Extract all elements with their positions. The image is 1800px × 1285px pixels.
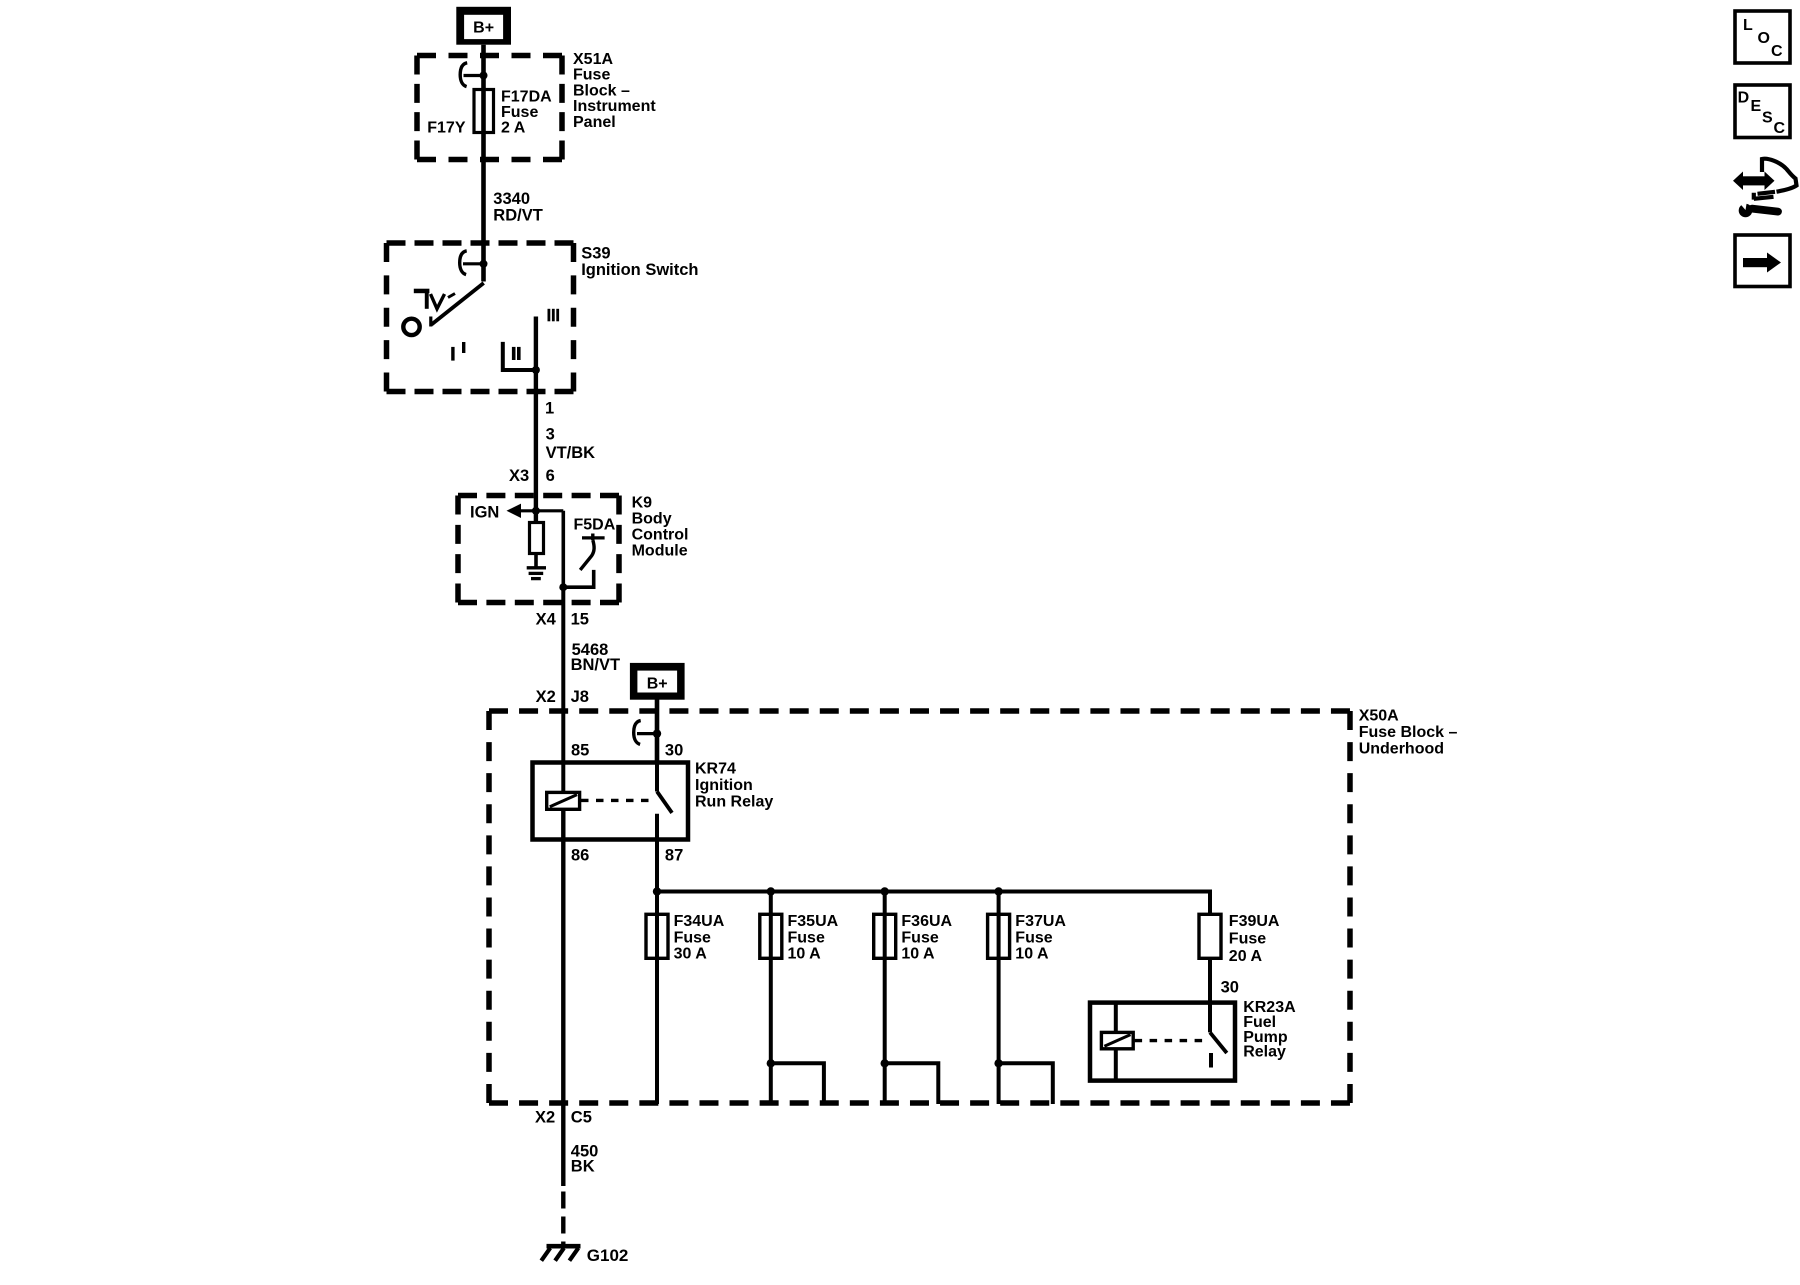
svg-text:G102: G102 <box>587 1246 629 1265</box>
relay KR23A coil terminal bottom <box>1114 1049 1118 1081</box>
wire switch output III down to BCM <box>534 317 538 523</box>
svg-text:C: C <box>1774 120 1786 137</box>
relay KR23A coil <box>1101 1032 1133 1048</box>
svg-text:6: 6 <box>546 467 555 485</box>
svg-text:Ignition Switch: Ignition Switch <box>581 261 698 279</box>
node junction F5DA output <box>559 583 567 591</box>
fuse F17DA 2A <box>474 89 552 137</box>
wire IGN branch down <box>561 511 565 589</box>
svg-text:Fuse: Fuse <box>674 929 711 946</box>
ignition switch S39 dashed box <box>387 243 574 392</box>
svg-text:BN/VT: BN/VT <box>571 656 621 674</box>
svg-text:Block –: Block – <box>573 82 630 99</box>
svg-text:K9: K9 <box>632 495 653 512</box>
svg-text:S: S <box>1762 110 1773 127</box>
mechanical link dashed <box>1135 1039 1206 1042</box>
svg-text:Fuse Block –: Fuse Block – <box>1359 724 1458 741</box>
connector X4 pin 15 <box>536 611 589 629</box>
svg-text:F17DA: F17DA <box>501 89 552 106</box>
svg-text:L: L <box>1743 17 1753 34</box>
label X51A Fuse Block - Instrument Panel <box>573 51 656 131</box>
wire F35 output bracket <box>771 1063 824 1104</box>
svg-text:F37UA: F37UA <box>1015 913 1066 930</box>
node junction 87 bus <box>653 887 661 895</box>
node junction at BCM input <box>532 507 540 515</box>
connector at switch <box>460 251 488 275</box>
svg-text:Fuse: Fuse <box>901 929 938 946</box>
wire F36 branch <box>883 892 887 1105</box>
svg-text:BK: BK <box>571 1157 595 1175</box>
svg-text:86: 86 <box>571 847 589 865</box>
label K9 Body Control Module <box>632 495 689 560</box>
wire dashed to ground <box>561 1192 565 1248</box>
svg-text:C5: C5 <box>571 1108 592 1126</box>
connector X3 pin 6 <box>509 467 555 485</box>
label KR23A Fuel Pump Relay <box>1243 999 1296 1061</box>
wire label 3 VT/BK <box>546 426 596 462</box>
svg-text:Run Relay: Run Relay <box>695 793 773 810</box>
svg-text:O: O <box>1758 30 1770 47</box>
svg-text:Fuse: Fuse <box>788 929 825 946</box>
LOC icon box <box>1735 11 1790 63</box>
node junction F35 output <box>767 1059 775 1067</box>
wire F35 branch <box>769 892 773 1105</box>
svg-text:Fuse: Fuse <box>501 104 538 121</box>
svg-text:Module: Module <box>632 543 688 560</box>
label S39 Ignition Switch <box>581 245 698 279</box>
position II wire <box>503 342 534 370</box>
wire relay 86 down to ground exit <box>561 809 565 1186</box>
wire label 5468 BN/VT <box>571 641 621 674</box>
wire resistor to ground <box>534 554 538 567</box>
wire B+ to ignition switch <box>481 45 486 282</box>
position O contact circle <box>403 319 419 335</box>
node junction F36 <box>881 887 889 895</box>
svg-text:10 A: 10 A <box>788 946 822 963</box>
ground G102 <box>541 1246 628 1265</box>
junction node II-III <box>532 366 540 374</box>
svg-text:Ignition: Ignition <box>695 777 753 794</box>
svg-text:Underhood: Underhood <box>1359 741 1444 758</box>
relay KR74 blade <box>657 792 672 813</box>
relay KR74 switch 30 terminal <box>655 763 659 792</box>
harness repair icon (arrows and wrench) <box>1733 159 1797 218</box>
node junction F35 <box>767 887 775 895</box>
svg-text:Panel: Panel <box>573 114 616 131</box>
svg-text:X3: X3 <box>509 467 529 485</box>
svg-text:Control: Control <box>632 527 689 544</box>
node junction F36 output <box>881 1059 889 1067</box>
svg-text:X51A: X51A <box>573 51 613 68</box>
ignition run relay KR74 box <box>533 763 689 840</box>
bus wire from relay 87 <box>657 892 1210 915</box>
svg-text:RD/VT: RD/VT <box>493 206 543 224</box>
relay KR74 coil <box>547 792 580 809</box>
svg-text:10 A: 10 A <box>901 946 935 963</box>
svg-text:30: 30 <box>665 741 683 759</box>
svg-text:B+: B+ <box>647 675 668 692</box>
connector F17Y <box>427 63 487 137</box>
svg-text:10 A: 10 A <box>1015 946 1049 963</box>
svg-text:VT/BK: VT/BK <box>546 444 596 462</box>
svg-text:F35UA: F35UA <box>788 913 839 930</box>
fuse F37UA 10A <box>988 913 1067 963</box>
svg-text:C: C <box>1771 43 1783 60</box>
forward arrow icon box <box>1735 235 1790 287</box>
svg-text:X2: X2 <box>536 688 556 706</box>
wire F37 branch <box>997 892 1001 1105</box>
label X50A Fuse Block - Underhood <box>1359 708 1458 758</box>
fuse F35UA 10A <box>760 913 839 963</box>
wire F37 output bracket <box>999 1063 1053 1104</box>
svg-text:2 A: 2 A <box>501 120 526 137</box>
svg-text:F5DA: F5DA <box>574 517 616 534</box>
svg-text:1: 1 <box>545 400 554 418</box>
B+ power terminal (top) <box>456 7 511 45</box>
svg-text:B+: B+ <box>473 20 494 37</box>
connector X2 pin C5 <box>535 1108 592 1126</box>
svg-text:X50A: X50A <box>1359 708 1399 725</box>
wire B+ to relay 30 <box>655 700 660 763</box>
svg-text:F17Y: F17Y <box>427 120 466 137</box>
svg-text:Fuse: Fuse <box>1015 929 1052 946</box>
internal resistor <box>530 523 544 554</box>
svg-text:F34UA: F34UA <box>674 913 725 930</box>
fuse block X51A dashed box <box>417 56 562 160</box>
svg-text:87: 87 <box>665 847 683 865</box>
switch wiper <box>432 283 484 325</box>
relay KR23A blade <box>1210 1032 1227 1053</box>
wire BCM to relay coil <box>561 587 565 792</box>
svg-text:Body: Body <box>632 511 672 528</box>
relay KR23A coil terminal top <box>1114 1003 1118 1033</box>
IGN arrow <box>470 504 563 522</box>
svg-text:Relay: Relay <box>1243 1044 1286 1061</box>
wire label 3340 RD/VT <box>493 190 543 224</box>
wire F39 to fuel pump relay <box>1208 958 1212 1032</box>
svg-text:D: D <box>1738 90 1750 107</box>
wire F34 branch <box>655 892 659 1105</box>
svg-text:F36UA: F36UA <box>901 913 952 930</box>
mechanical link dashed <box>581 799 652 802</box>
internal ground <box>527 568 546 579</box>
svg-text:Fuse: Fuse <box>1229 931 1266 948</box>
fuse F39UA 20A <box>1199 913 1280 965</box>
relay KR74 87 terminal <box>655 814 659 892</box>
fuse element F5DA <box>563 517 615 588</box>
svg-text:30: 30 <box>1221 979 1239 997</box>
body control module K9 dashed box <box>458 496 619 603</box>
svg-text:3: 3 <box>546 426 555 444</box>
svg-text:X2: X2 <box>535 1108 555 1126</box>
wire label 450 BK <box>571 1142 599 1175</box>
fuse F34UA 30A <box>646 913 725 963</box>
svg-text:Instrument: Instrument <box>573 98 656 115</box>
svg-text:20 A: 20 A <box>1229 948 1263 965</box>
svg-text:IGN: IGN <box>470 504 499 522</box>
connector at B+ feed <box>634 721 662 745</box>
connector X2 pin J8 <box>536 688 589 706</box>
B+ power terminal (underhood) <box>630 663 685 700</box>
relay KR23A 87 stub <box>1209 1053 1213 1068</box>
svg-text:30 A: 30 A <box>674 946 708 963</box>
position III mark <box>548 309 560 322</box>
label KR74 Ignition Run Relay <box>695 761 773 811</box>
svg-text:15: 15 <box>571 611 589 629</box>
svg-text:J8: J8 <box>571 688 589 706</box>
position I mark <box>451 342 464 361</box>
node junction F37 output <box>994 1059 1002 1067</box>
svg-text:X4: X4 <box>536 611 557 629</box>
svg-text:KR74: KR74 <box>695 761 736 778</box>
fuse F36UA 10A <box>874 913 953 963</box>
svg-text:E: E <box>1751 98 1762 115</box>
wire F36 output bracket <box>885 1063 939 1104</box>
node junction F37 <box>994 887 1002 895</box>
position II mark <box>512 347 521 360</box>
fuel pump relay KR23A box <box>1090 1003 1235 1081</box>
position IV mark <box>414 289 455 309</box>
svg-text:F39UA: F39UA <box>1229 913 1280 930</box>
svg-text:Fuse: Fuse <box>573 67 610 84</box>
fuse block X50A dashed box <box>489 711 1350 1103</box>
svg-text:85: 85 <box>571 741 589 759</box>
DESC icon box <box>1735 85 1790 138</box>
